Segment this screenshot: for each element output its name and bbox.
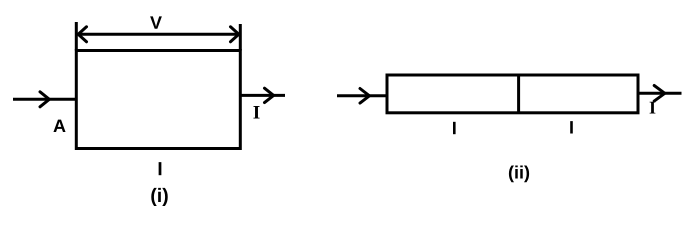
wire extension line right of V dimension [239, 24, 242, 51]
wire left lead (ii) [337, 94, 387, 97]
label I (below left cell of box ii) [453, 122, 456, 134]
wire V dimension line [78, 33, 239, 36]
wire left lead (i) [13, 98, 76, 101]
label I (current at right lead of box i) [253, 106, 259, 118]
label I (current at right lead of box ii) [650, 102, 656, 114]
wire right lead (i) [240, 94, 285, 97]
wire divider of box (ii) [517, 75, 520, 113]
label (ii) caption [509, 165, 529, 182]
box (i) conductor block [76, 51, 240, 149]
arrowhead left lead (ii) [360, 89, 369, 104]
label I (below box i) [159, 162, 162, 175]
label I (below right cell of box ii) [570, 121, 573, 133]
arrowhead left of V dimension [78, 27, 86, 42]
arrowhead right of V dimension [231, 27, 239, 42]
arrowhead left lead (i) [40, 92, 49, 107]
wire extension line left of V dimension [75, 22, 78, 51]
wire right lead (ii) [638, 92, 682, 95]
label A (at left lead of box i) [53, 120, 65, 132]
arrowhead right lead (i) [265, 88, 274, 102]
label V (voltage across box i) [150, 16, 162, 28]
label (i) caption [151, 188, 167, 206]
arrowhead right lead (ii) [654, 86, 665, 102]
box (ii) conductor block [387, 75, 638, 113]
